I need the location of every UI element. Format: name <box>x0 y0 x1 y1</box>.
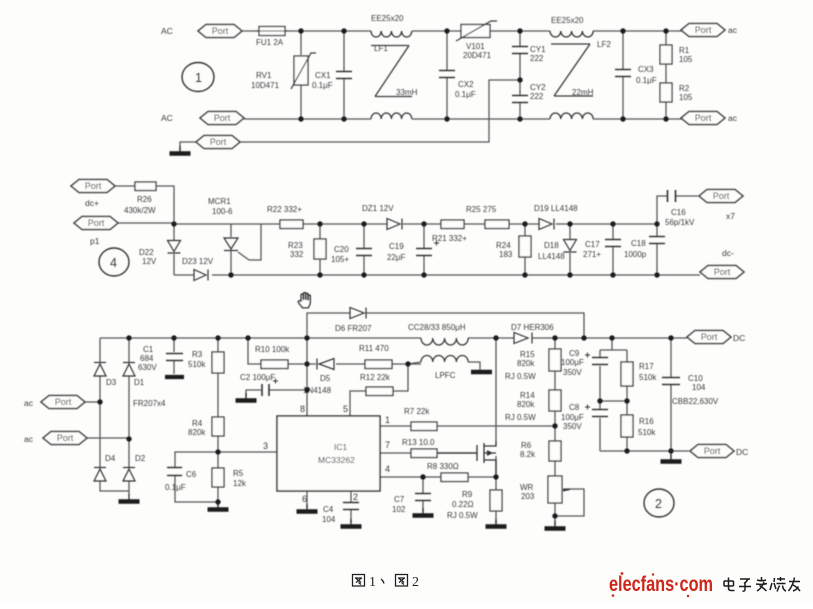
svg-text:684: 684 <box>140 354 154 363</box>
svg-text:D4: D4 <box>105 454 116 463</box>
zener D18 LL4148 <box>538 240 577 262</box>
svg-text:IC1: IC1 <box>334 442 348 452</box>
svg-text:7: 7 <box>385 440 390 450</box>
svg-text:203: 203 <box>521 492 535 501</box>
svg-text:CY1: CY1 <box>530 45 546 54</box>
svg-text:DZ1 12V: DZ1 12V <box>362 204 394 213</box>
wire: C9 C8 R17 R16 bank <box>600 338 627 451</box>
capacitor CX1 0.1uF <box>312 71 352 90</box>
fuse FU1 2A <box>255 27 289 48</box>
svg-text:R13 10.0: R13 10.0 <box>402 438 435 447</box>
resistor R14 820k RJ 0.5W <box>505 390 561 422</box>
capacitor CY1 222 <box>512 45 546 63</box>
svg-text:271+: 271+ <box>583 250 601 259</box>
svg-text:104: 104 <box>692 383 706 392</box>
svg-text:183: 183 <box>499 250 513 259</box>
svg-text:R21 332+: R21 332+ <box>432 234 467 243</box>
wire: C20 column <box>363 224 365 275</box>
resistor R21 332+ <box>432 220 467 243</box>
svg-text:R5: R5 <box>233 469 244 478</box>
wire: C2 branch <box>246 390 307 398</box>
wire: p1 port to node <box>118 222 174 224</box>
wire: bridge column D3/D4 <box>100 338 129 491</box>
svg-text:20D471: 20D471 <box>463 51 492 60</box>
svg-text:DC: DC <box>736 447 748 457</box>
caption: 图 1、图 2 <box>353 575 408 587</box>
diode D4 (bridge) <box>94 454 116 481</box>
circle marker 4 <box>99 248 129 276</box>
svg-text:R14: R14 <box>520 391 535 400</box>
svg-text:R11 470: R11 470 <box>359 344 389 353</box>
capacitor C9 100uF 350V (electrolytic) <box>561 349 608 377</box>
capacitor C2 100uF <box>240 373 278 396</box>
resistor R11 470 <box>359 344 392 369</box>
svg-text:820k: 820k <box>517 359 535 368</box>
port ac in 2 <box>43 432 87 445</box>
resistor R26 430k/2W <box>124 182 156 215</box>
svg-text:0.22Ω: 0.22Ω <box>452 500 474 509</box>
svg-text:R22 332+: R22 332+ <box>267 205 302 214</box>
svg-text:430k/2W: 430k/2W <box>124 206 156 215</box>
svg-text:R26: R26 <box>137 195 152 204</box>
svg-text:R2: R2 <box>679 84 690 93</box>
glyph 图 (first) <box>353 575 365 587</box>
svg-text:RV1: RV1 <box>256 71 272 80</box>
svg-text:RJ 0.5W: RJ 0.5W <box>505 372 536 381</box>
svg-text:350V: 350V <box>563 368 582 377</box>
svg-text:2: 2 <box>412 575 419 590</box>
resistor R24 183 <box>496 236 531 259</box>
svg-text:C2 100μF: C2 100μF <box>240 373 275 382</box>
svg-text:R9: R9 <box>462 490 473 499</box>
svg-text:4: 4 <box>385 464 390 474</box>
wire: C1 column <box>173 338 175 374</box>
svg-text:820k: 820k <box>517 400 535 409</box>
ground (bridge negative) <box>119 494 140 502</box>
wire: R1 R2 column <box>665 31 667 119</box>
svg-text:56p/1kV: 56p/1kV <box>665 218 695 227</box>
svg-text:D3: D3 <box>106 378 117 387</box>
svg-text:105: 105 <box>679 55 693 64</box>
wire: C7 branch <box>422 477 424 512</box>
wire: C17 column <box>612 224 614 275</box>
svg-text:D18: D18 <box>544 241 559 250</box>
resistor R25 275 <box>466 205 509 229</box>
resistor R10 100k <box>255 345 290 369</box>
svg-text:RJ 0.5W: RJ 0.5W <box>505 413 536 422</box>
svg-text:630V: 630V <box>138 363 157 372</box>
svg-text:DC: DC <box>733 333 745 343</box>
svg-text:CX2: CX2 <box>458 80 474 89</box>
svg-text:510k: 510k <box>188 360 206 369</box>
wire: C18 column <box>656 224 658 275</box>
ground (R5/C6) <box>208 502 229 510</box>
resistor R1 105 <box>660 45 693 64</box>
resistor R8 330ohm <box>427 462 468 482</box>
svg-text:10D471: 10D471 <box>251 81 280 90</box>
svg-text:332: 332 <box>290 250 304 259</box>
svg-text:0.1μF: 0.1μF <box>312 81 333 90</box>
wire: ac port1 to bridge <box>85 401 100 403</box>
port ac out top <box>681 24 725 37</box>
elecfans.com logo <box>609 572 713 597</box>
svg-text:C10: C10 <box>688 374 703 383</box>
svg-text:C17: C17 <box>585 240 600 249</box>
svg-text:222: 222 <box>530 54 544 63</box>
svg-text:D1: D1 <box>134 378 145 387</box>
resistor R6 8.2k <box>520 441 561 461</box>
svg-text:R1: R1 <box>679 46 690 55</box>
port x7 <box>699 190 743 203</box>
wire: D5-R11 line <box>307 363 421 365</box>
svg-text:C1: C1 <box>143 345 154 354</box>
wire: bottom rail section4 <box>174 274 700 276</box>
port dc+ <box>71 180 115 193</box>
wire: R15 R14 R6 WR column <box>554 338 556 525</box>
resistor R23 332 <box>288 239 326 259</box>
svg-text:dc-: dc- <box>722 248 734 258</box>
svg-text:100μF: 100μF <box>561 413 584 422</box>
wire: pin7 R13 gate wire <box>380 452 477 454</box>
capacitor CY2 222 <box>512 83 546 103</box>
resistor R5 12k <box>212 468 247 488</box>
wire: C6 branch <box>175 452 218 502</box>
svg-text:MCR1: MCR1 <box>208 197 231 206</box>
ground (PE) <box>170 146 191 154</box>
resistor R4 820k <box>188 417 224 437</box>
wire: R10 branch <box>248 338 307 364</box>
svg-text:D22: D22 <box>139 248 154 257</box>
wire: CX3 column <box>622 31 624 119</box>
svg-text:1000p: 1000p <box>624 250 647 259</box>
ground (WR) <box>545 521 566 529</box>
wire: pin8 column <box>306 338 308 416</box>
wire: R3 R4 R5 column <box>217 338 219 507</box>
capacitor C4 104 (pin2) <box>322 503 359 525</box>
diode D5 1N4148 <box>303 359 334 396</box>
svg-text:6: 6 <box>302 494 307 504</box>
svg-text:R4: R4 <box>192 419 203 428</box>
resistor R7 22k <box>404 407 437 431</box>
svg-text:elecfans·com: elecfans·com <box>609 573 713 596</box>
capacitor C18 1000p <box>624 237 665 260</box>
diode D7 HER306 (series, main rail) <box>511 323 554 344</box>
node CY midpoint <box>517 77 522 82</box>
svg-text:510k: 510k <box>639 373 657 382</box>
port DC out + <box>687 331 731 344</box>
capacitor CX3 0.1uF <box>615 65 657 85</box>
svg-text:AC: AC <box>161 113 173 123</box>
ground (LPFC secondary, bold bar) <box>471 370 492 375</box>
svg-text:CBB22,630V: CBB22,630V <box>672 397 719 406</box>
svg-text:p1: p1 <box>90 236 100 246</box>
wire: bottom AC rail <box>244 118 683 120</box>
svg-text:105+: 105+ <box>331 255 349 264</box>
svg-text:22μF: 22μF <box>387 253 406 262</box>
ground (pin6) <box>297 504 318 512</box>
svg-text:EE25x20: EE25x20 <box>551 16 584 25</box>
capacitor C17 271+ <box>583 240 621 260</box>
wire: C10 column <box>670 338 672 459</box>
svg-text:C4: C4 <box>323 505 334 514</box>
wire: CY midpoint to ground port <box>240 80 520 142</box>
wire: ground port stub <box>180 142 196 151</box>
svg-text:LL4148: LL4148 <box>538 252 565 261</box>
capacitor C7 102 <box>392 494 431 515</box>
glyph 烧 <box>770 577 786 592</box>
trimmer WR 203 <box>520 476 570 503</box>
svg-text:2: 2 <box>655 497 662 511</box>
svg-text:105: 105 <box>679 93 693 102</box>
svg-text:1: 1 <box>385 415 390 425</box>
wire: top rail section4 <box>174 223 657 225</box>
svg-text:R10 100k: R10 100k <box>255 345 290 354</box>
svg-text:EE25x20: EE25x20 <box>371 14 404 23</box>
svg-text:WR: WR <box>520 483 534 492</box>
glyph 、 <box>381 579 384 584</box>
svg-text:D6 FR207: D6 FR207 <box>335 324 372 333</box>
wire: D18 column <box>569 224 571 275</box>
svg-text:ac: ac <box>728 25 738 35</box>
svg-text:CX1: CX1 <box>315 71 331 80</box>
zener D22 12V <box>139 241 181 267</box>
svg-text:4: 4 <box>110 256 117 270</box>
ground (C4) <box>341 519 362 527</box>
svg-text:D23 12V: D23 12V <box>182 257 214 266</box>
resistor R16 510k <box>621 415 656 437</box>
wire: R12 to pin5 <box>350 364 408 416</box>
circle marker 1 <box>182 63 214 92</box>
capacitor C10 104 CBB22 630V <box>662 374 719 406</box>
svg-text:CX3: CX3 <box>638 65 654 74</box>
resistor R9 0.22 RJ 0.5W <box>447 490 502 520</box>
wire: C19 column <box>423 224 425 275</box>
svg-text:FU1 2A: FU1 2A <box>256 38 284 47</box>
wire: MOSFET drain column <box>495 338 497 477</box>
junction dots section1 <box>298 28 668 121</box>
svg-text:R24: R24 <box>496 241 511 250</box>
svg-text:104: 104 <box>322 515 336 524</box>
port AC line in (top) <box>198 25 242 38</box>
wire: WR wiper loop <box>555 489 584 516</box>
wire: CX2 column <box>446 31 448 119</box>
ground (C7) <box>413 508 434 516</box>
inductor LPFC secondary winding <box>421 356 468 380</box>
svg-text:R12 22k: R12 22k <box>360 373 391 382</box>
svg-text:0.1μF: 0.1μF <box>455 90 476 99</box>
resistor R3 510k <box>188 350 224 373</box>
ground (R9) <box>486 519 507 527</box>
svg-text:100-6: 100-6 <box>212 207 233 216</box>
svg-text:AC: AC <box>161 26 173 36</box>
svg-text:V101: V101 <box>466 42 485 51</box>
svg-text:R15: R15 <box>520 350 535 359</box>
varistor V101 20D471 (series on rail) <box>456 21 497 60</box>
svg-text:RJ 0.5W: RJ 0.5W <box>447 511 478 520</box>
svg-text:3: 3 <box>263 441 268 451</box>
wire: pin1 R7 wire <box>380 425 555 427</box>
glyph 友 <box>789 578 801 592</box>
wire: bridge column D1/D2 <box>128 338 130 495</box>
svg-text:222: 222 <box>530 92 544 101</box>
svg-text:0.1μF: 0.1μF <box>165 483 186 492</box>
svg-text:C9: C9 <box>569 349 580 358</box>
wire: R9 column <box>495 477 497 524</box>
svg-text:R17: R17 <box>639 362 654 371</box>
diode D2 (bridge) <box>123 454 146 481</box>
IC U1 MC33262 <box>277 416 380 491</box>
varistor RV1 10D471 <box>251 53 316 90</box>
wire: top AC rail <box>242 30 683 32</box>
port dc- <box>700 266 744 279</box>
port p1 <box>74 217 118 230</box>
resistor R2 105 <box>660 83 693 102</box>
diode D19 LL4148 (series, top rail) <box>534 204 578 230</box>
diode D3 (bridge) <box>94 363 117 388</box>
svg-text:ac: ac <box>24 434 34 444</box>
svg-text:R7 22k: R7 22k <box>404 407 430 416</box>
capacitor C8 100uF 350V (electrolytic) <box>561 403 608 431</box>
svg-text:820k: 820k <box>188 428 206 437</box>
svg-text:100μF: 100μF <box>561 358 584 367</box>
diode D1 (bridge) <box>123 363 145 388</box>
port DC out - <box>690 445 734 458</box>
capacitor C19 22uF (electrolytic) <box>387 241 439 263</box>
wire: CX1 column <box>343 31 345 119</box>
svg-text:510k: 510k <box>638 428 656 437</box>
svg-text:350V: 350V <box>563 422 582 431</box>
svg-text:12V: 12V <box>142 257 157 266</box>
thyristor MCR1 100-6 <box>208 197 238 251</box>
inductor LPFC CC28/33 850uH (primary) <box>408 323 468 345</box>
circle marker 2 <box>644 489 674 517</box>
wire: R23 column <box>319 224 321 275</box>
wire: RV1 column <box>300 31 302 119</box>
wire: ac port2 to bridge <box>87 437 129 439</box>
glyph 发 <box>756 577 767 591</box>
wire: main top rail section2 <box>100 337 687 339</box>
wire: LPFC secondary to ground <box>408 362 480 370</box>
capacitor C20 105+ <box>331 245 372 264</box>
svg-text:MC33262: MC33262 <box>318 455 355 465</box>
svg-text:5: 5 <box>343 404 348 414</box>
svg-text:LPFC: LPFC <box>435 371 456 380</box>
capacitor CX2 0.1uF <box>439 71 476 100</box>
svg-text:CC28/33 850μH: CC28/33 850μH <box>408 323 466 332</box>
wire: MCR1 branch <box>231 224 261 275</box>
ground (C2) <box>236 393 257 401</box>
svg-text:22mH: 22mH <box>572 88 594 97</box>
svg-text:D19 LL4148: D19 LL4148 <box>534 204 578 213</box>
port ac out bottom <box>681 112 725 125</box>
svg-text:12k: 12k <box>233 479 247 488</box>
junction dots section4 <box>171 221 659 277</box>
hand cursor <box>298 292 310 307</box>
svg-text:2: 2 <box>353 492 358 502</box>
capacitor C1 684 630V <box>138 345 184 377</box>
svg-text:R3: R3 <box>192 350 203 359</box>
glyph 子 <box>739 579 751 591</box>
svg-text:CY2: CY2 <box>530 83 546 92</box>
svg-text:R6: R6 <box>521 441 532 450</box>
resistor R15 820k RJ 0.5W <box>505 349 561 381</box>
zener DZ1 12V (series, top rail) <box>362 204 402 230</box>
wire: pin6 to ground <box>306 491 308 508</box>
glyph 图 (second) <box>396 575 408 587</box>
wire: R24 column <box>524 224 526 275</box>
svg-text:D2: D2 <box>135 454 146 463</box>
glyph 电 <box>724 578 735 591</box>
port AC line in (bottom) <box>200 112 244 125</box>
ground (output) <box>661 454 682 462</box>
port ac in 1 <box>41 396 85 409</box>
junction dots section2 <box>97 335 673 518</box>
port PE ground <box>196 136 240 149</box>
wire: D6 bypass line <box>307 313 584 338</box>
svg-text:FR207x4: FR207x4 <box>133 399 166 408</box>
svg-text:x7: x7 <box>726 211 735 221</box>
svg-text:C20: C20 <box>334 245 349 254</box>
wire: pin2 column <box>350 491 352 523</box>
svg-text:33mH: 33mH <box>396 88 418 97</box>
capacitor C6 0.1uF <box>165 468 197 493</box>
svg-text:LF2: LF2 <box>597 40 611 49</box>
svg-text:R25 275: R25 275 <box>466 205 497 214</box>
svg-text:1: 1 <box>369 575 376 590</box>
svg-text:C16: C16 <box>671 208 686 217</box>
common-mode choke LF2 EE25x20 22mH <box>550 31 593 119</box>
svg-text:C7: C7 <box>394 495 405 504</box>
svg-text:102: 102 <box>392 505 406 514</box>
resistor R12 22k <box>360 373 393 396</box>
wire: pin3 wire <box>218 451 277 453</box>
svg-text:C18: C18 <box>631 239 646 248</box>
resistor R22 332+ <box>267 205 303 229</box>
svg-text:ac: ac <box>24 398 34 408</box>
wire: C16 branch to port x7 <box>657 196 698 224</box>
capacitor C16 56p/1kV <box>665 190 695 227</box>
svg-text:LF1: LF1 <box>374 44 388 53</box>
wire: output bottom rail <box>600 450 689 452</box>
svg-text:D7 HER306: D7 HER306 <box>511 323 554 332</box>
wire: D22 column <box>173 224 175 275</box>
diode D23 12V (series, bottom rail) <box>182 257 214 281</box>
svg-text:dc+: dc+ <box>85 198 99 208</box>
common-mode choke LF1 EE25x20 33mH <box>371 31 412 119</box>
wire: CY column <box>519 31 521 119</box>
wire: pin4 R8 wire <box>380 476 496 478</box>
wire: dc+ port to R26 to node <box>115 186 174 224</box>
resistor R13 10.0 <box>402 438 437 458</box>
svg-text:R8 330Ω: R8 330Ω <box>427 462 459 471</box>
svg-text:8: 8 <box>300 404 305 414</box>
svg-text:R23: R23 <box>288 241 303 250</box>
svg-text:C8: C8 <box>569 403 580 412</box>
logo text 电子发烧友 (hand strokes) <box>724 577 800 592</box>
svg-text:R16: R16 <box>639 417 654 426</box>
diode D6 FR207 (bypass) <box>335 308 372 334</box>
svg-text:8.2k: 8.2k <box>520 450 536 459</box>
svg-text:C6: C6 <box>186 470 197 479</box>
resistor R17 510k <box>621 362 657 386</box>
svg-text:D5: D5 <box>320 374 331 383</box>
MOSFET Q1 <box>437 441 496 477</box>
svg-text:C19: C19 <box>389 242 404 251</box>
svg-text:ac: ac <box>728 113 738 123</box>
svg-text:1: 1 <box>195 71 202 85</box>
svg-text:0.1μF: 0.1μF <box>636 76 657 85</box>
